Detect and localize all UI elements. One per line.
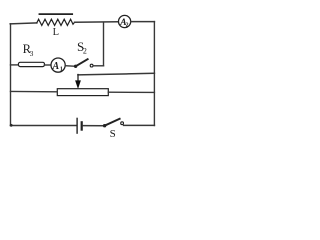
label S2 — [77, 39, 87, 56]
wire top-left stub — [10, 23, 37, 24]
inductor L — [37, 14, 75, 25]
switch S — [103, 119, 124, 128]
wire top-right stub — [131, 21, 155, 23]
svg-text:2: 2 — [126, 22, 129, 28]
ammeter A2 — [119, 15, 131, 28]
svg-text:L: L — [53, 27, 59, 38]
svg-text:A: A — [52, 61, 60, 72]
label L — [53, 27, 59, 38]
ammeter A1 — [51, 58, 65, 72]
wire riser to top — [103, 22, 105, 65]
resistor R3 — [18, 62, 44, 66]
wire wiper line — [78, 73, 154, 75]
wire switch to right — [124, 124, 155, 126]
svg-text:2: 2 — [83, 47, 87, 56]
rheostat body — [57, 89, 108, 96]
wire R3 branch left — [11, 64, 19, 66]
wire left vertical — [10, 24, 12, 126]
battery — [77, 118, 82, 133]
wire right vertical — [153, 22, 155, 126]
switch S2 — [74, 59, 93, 68]
svg-text:3: 3 — [30, 49, 34, 58]
svg-text:1: 1 — [60, 65, 63, 72]
wire rheostat left lead — [11, 90, 58, 92]
wire battery to switch — [83, 125, 105, 127]
wire R3 to A1 — [45, 64, 52, 66]
wire bottom left — [10, 124, 76, 127]
wire S2 to riser — [93, 65, 103, 67]
label S — [110, 128, 116, 140]
rheostat wiper arrow — [75, 75, 81, 90]
wire A1 to S2 — [65, 65, 75, 68]
wire top middle — [75, 21, 119, 23]
label R3 — [23, 42, 34, 58]
wire rheostat right lead — [108, 91, 154, 93]
svg-text:S: S — [110, 128, 116, 140]
